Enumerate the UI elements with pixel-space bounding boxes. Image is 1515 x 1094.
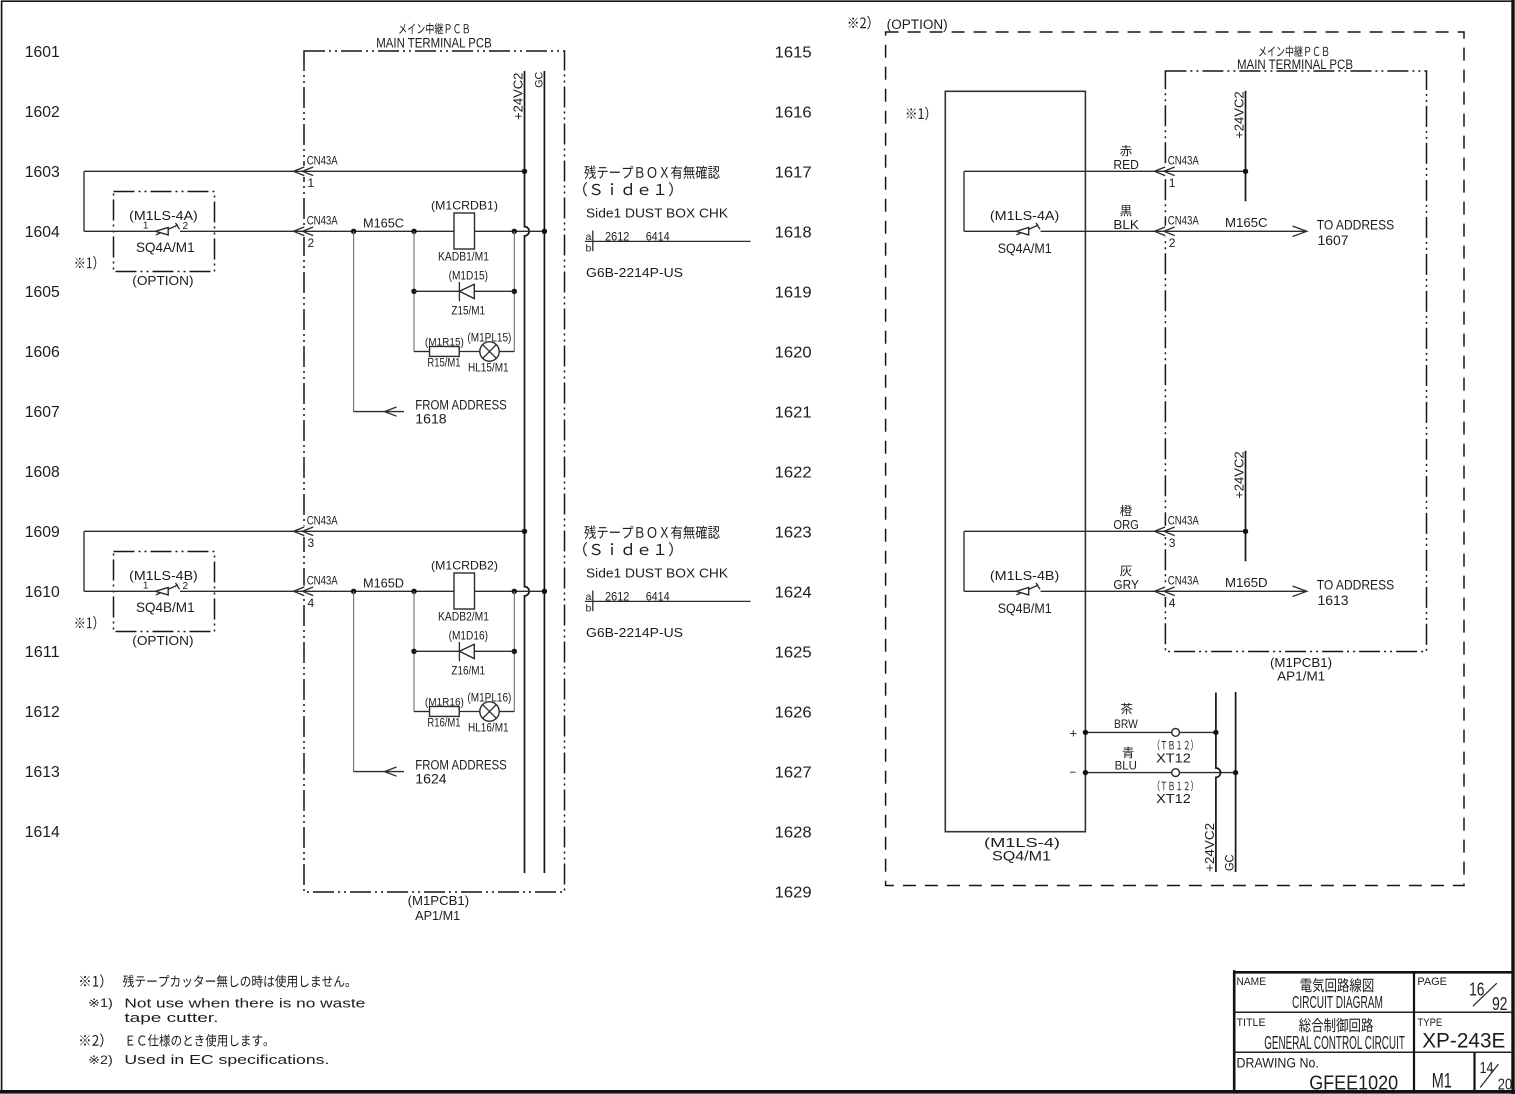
svg-text:4: 4 [308, 596, 315, 610]
svg-text:1: 1 [143, 221, 149, 232]
svg-text:1603: 1603 [25, 164, 60, 181]
svg-text:1607: 1607 [25, 404, 60, 421]
svg-text:(M1LS-4A): (M1LS-4A) [990, 208, 1059, 223]
connector CN43A pin 4 [294, 576, 338, 610]
connector CN43A pin 3 [294, 516, 338, 550]
svg-text:MAIN TERMINAL PCB: MAIN TERMINAL PCB [376, 35, 491, 50]
svg-text:1613: 1613 [1318, 592, 1349, 608]
diode Z16/M1 (M1D16) [411, 631, 517, 678]
svg-text:1: 1 [1169, 176, 1176, 190]
svg-text:SQ4B/M1: SQ4B/M1 [998, 601, 1052, 616]
svg-text:1: 1 [308, 176, 315, 190]
relay coil KADB1/M1 (M1CRDB1) [431, 198, 498, 263]
svg-text:2: 2 [183, 581, 189, 592]
svg-text:b: b [586, 603, 592, 615]
svg-text:3: 3 [308, 536, 315, 550]
svg-text:1611: 1611 [25, 644, 60, 661]
wire gaps at connector CN43A (left box edge) [302, 166, 309, 597]
title block TYPE cell [1417, 1017, 1505, 1052]
wire branch to FROM ADDRESS 1618 [354, 231, 507, 426]
svg-text:+24VC2: +24VC2 [511, 73, 526, 120]
svg-text:4: 4 [1169, 596, 1176, 610]
svg-text:HL15/M1: HL15/M1 [468, 363, 509, 375]
svg-text:CIRCUIT DIAGRAM: CIRCUIT DIAGRAM [1292, 992, 1383, 1012]
svg-text:XP-243E: XP-243E [1422, 1029, 1505, 1052]
svg-text:GRY: GRY [1113, 577, 1139, 592]
svg-text:(M1LS-4B): (M1LS-4B) [990, 568, 1059, 583]
svg-text:KADB1/M1: KADB1/M1 [438, 251, 489, 263]
svg-text:SQ4/M1: SQ4/M1 [992, 848, 1051, 863]
svg-text:TO ADDRESS: TO ADDRESS [1317, 217, 1395, 233]
title block DRAWING No. cell [1237, 1055, 1399, 1094]
svg-text:1623: 1623 [775, 524, 812, 541]
svg-text:(OPTION): (OPTION) [887, 17, 948, 32]
svg-text:(OPTION): (OPTION) [132, 273, 193, 288]
svg-text:+24VC2: +24VC2 [1232, 91, 1247, 138]
svg-text:(M1PCB1): (M1PCB1) [1270, 656, 1332, 670]
svg-text:2: 2 [308, 236, 315, 250]
svg-text:14: 14 [1480, 1060, 1494, 1077]
svg-text:1621: 1621 [775, 404, 812, 421]
connector CN43A pin 1 (right) [1154, 156, 1199, 190]
svg-text:1608: 1608 [25, 464, 60, 481]
svg-text:CN43A: CN43A [307, 516, 338, 528]
svg-text:(OPTION): (OPTION) [132, 633, 193, 648]
node line-numbers 1601-1614 (left column) [25, 44, 60, 841]
svg-text:G6B-2214P-US: G6B-2214P-US [586, 265, 683, 280]
svg-text:1625: 1625 [775, 644, 812, 661]
svg-text:CN43A: CN43A [1168, 576, 1199, 588]
svg-text:Used in EC specifications.: Used in EC specifications. [124, 1053, 329, 1067]
svg-text:1618: 1618 [415, 411, 446, 426]
svg-text:BLK: BLK [1113, 217, 1139, 232]
svg-text:1626: 1626 [775, 704, 812, 721]
limit switch SQ4B/M1 (M1LS-4B) right [990, 568, 1059, 616]
svg-text:ORG: ORG [1113, 517, 1139, 532]
svg-text:1614: 1614 [25, 824, 60, 841]
svg-text:GENERAL CONTROL CIRCUIT: GENERAL CONTROL CIRCUIT [1264, 1032, 1405, 1053]
node M165C [351, 215, 404, 234]
svg-text:XT12: XT12 [1156, 792, 1191, 806]
svg-text:1622: 1622 [775, 464, 812, 481]
svg-text:92: 92 [1492, 994, 1507, 1014]
svg-text:1615: 1615 [775, 44, 812, 61]
svg-text:M165D: M165D [1225, 575, 1268, 590]
svg-text:+: + [1070, 725, 1078, 740]
svg-text:1617: 1617 [775, 164, 812, 181]
svg-text:1604: 1604 [25, 224, 60, 241]
svg-text:(M1D15): (M1D15) [449, 271, 489, 283]
svg-text:M165C: M165C [363, 215, 404, 230]
svg-text:2: 2 [183, 221, 189, 232]
svg-text:1606: 1606 [25, 344, 60, 361]
svg-text:DRAWING No.: DRAWING No. [1237, 1055, 1319, 1070]
ground rail GC (bottom right) [1223, 692, 1237, 872]
terminal (TB12) XT12 lower [1156, 769, 1193, 807]
svg-text:1619: 1619 [775, 284, 812, 301]
svg-text:XT12: XT12 [1156, 752, 1191, 766]
svg-text:1612: 1612 [25, 704, 60, 721]
limit switch SQ4A/M1 (M1LS-4A) right [990, 208, 1059, 256]
svg-text:(M1PL16): (M1PL16) [467, 692, 511, 704]
svg-text:TO ADDRESS: TO ADDRESS [1317, 577, 1395, 593]
title block sheet 14/20 cell [1480, 1060, 1513, 1093]
svg-text:1629: 1629 [775, 884, 812, 901]
connector CN43A pin 2 (right) [1154, 216, 1199, 250]
svg-text:CN43A: CN43A [307, 576, 338, 588]
wire branch to FROM ADDRESS 1624 [354, 591, 507, 786]
note 1 (English) [88, 997, 365, 1025]
svg-text:(M1PCB1): (M1PCB1) [408, 894, 470, 908]
svg-text:CN43A: CN43A [1168, 216, 1199, 228]
wire GRY return row / net M165D [964, 566, 1307, 593]
svg-text:1624: 1624 [415, 771, 447, 786]
svg-text:AP1/M1: AP1/M1 [415, 909, 460, 923]
svg-text:Z16/M1: Z16/M1 [451, 665, 485, 677]
arrow to address 1607 / net M165C [1225, 215, 1394, 248]
connector CN43A pin 2 [294, 216, 338, 250]
OPTION enclosure (big dashed box) note 2 [849, 16, 1464, 886]
svg-text:3: 3 [1169, 536, 1176, 550]
svg-text:RED: RED [1113, 157, 1139, 172]
svg-text:1616: 1616 [775, 104, 812, 121]
title block NAME cell [1237, 976, 1384, 1012]
svg-text:TYPE: TYPE [1417, 1017, 1442, 1029]
power rail stub +24VC2 (right, row 3) [1232, 451, 1249, 562]
svg-text:M1: M1 [1432, 1070, 1452, 1093]
svg-text:NAME: NAME [1237, 976, 1267, 988]
svg-text:R15/M1: R15/M1 [427, 357, 460, 369]
svg-text:SQ4A/M1: SQ4A/M1 [136, 239, 195, 255]
limit switch assembly SQ4/M1 (M1LS-4) solid box [907, 91, 1086, 863]
svg-text:1: 1 [143, 581, 149, 592]
lamp HL15/M1 (M1PL15) [459, 332, 514, 374]
relay coil KADB2/M1 (M1CRDB2) [431, 558, 498, 623]
connector CN43A pin 4 (right) [1154, 576, 1199, 610]
note 2 (Japanese) [80, 1033, 267, 1047]
svg-text:1613: 1613 [25, 764, 60, 781]
svg-text:6414: 6414 [646, 590, 670, 604]
annotation DUST BOX CHK block [583, 165, 750, 280]
svg-text:MAIN TERMINAL PCB: MAIN TERMINAL PCB [1237, 57, 1353, 72]
connector CN43A pin 1 [294, 156, 338, 190]
svg-text:1605: 1605 [25, 284, 60, 301]
note 1 (Japanese) [80, 974, 349, 988]
svg-text:Not use when there is no waste: Not use when there is no waste [124, 997, 365, 1011]
power rail +24VC2 (left box) [511, 71, 530, 873]
wire RED feed row [964, 145, 1246, 231]
svg-text:1609: 1609 [25, 524, 60, 541]
svg-text:1628: 1628 [775, 824, 812, 841]
svg-text:(M1R15): (M1R15) [425, 336, 464, 348]
svg-text:FROM ADDRESS: FROM ADDRESS [415, 757, 507, 772]
PCB board outline AP1/M1 MAIN TERMINAL PCB (left dashed box) [304, 23, 565, 923]
svg-text:※2): ※2) [88, 1055, 113, 1067]
svg-text:+24VC2: +24VC2 [1232, 451, 1247, 498]
connector CN43A pin 3 (right) [1154, 516, 1199, 550]
svg-text:BRW: BRW [1114, 717, 1138, 731]
svg-text:(M1CRDB1): (M1CRDB1) [431, 198, 498, 212]
svg-text:1601: 1601 [25, 44, 60, 61]
svg-text:CN43A: CN43A [1168, 516, 1199, 528]
svg-text:CN43A: CN43A [307, 216, 338, 228]
svg-text:GC: GC [1223, 854, 1237, 871]
svg-text:+24VC2: +24VC2 [1202, 823, 1217, 872]
wire gaps at connector CN43A (right box edge) [1162, 166, 1169, 597]
svg-text:(M1PL15): (M1PL15) [467, 332, 511, 344]
title block TITLE cell [1237, 1017, 1405, 1053]
wire BLK return row / net M165C [964, 205, 1307, 232]
arrow to address 1613 / net M165D [1225, 575, 1394, 608]
wire parallel branch verticals [411, 589, 517, 712]
svg-text:AP1/M1: AP1/M1 [1277, 669, 1325, 683]
svg-text:1618: 1618 [775, 224, 812, 241]
svg-text:Side1 DUST BOX CHK: Side1 DUST BOX CHK [586, 207, 729, 221]
svg-text:CN43A: CN43A [307, 156, 338, 168]
svg-text:Side1 DUST BOX CHK: Side1 DUST BOX CHK [586, 567, 729, 581]
svg-text:FROM ADDRESS: FROM ADDRESS [415, 397, 507, 412]
svg-text:BLU: BLU [1115, 759, 1137, 773]
lamp HL16/M1 (M1PL16) [459, 692, 514, 734]
node M165D [351, 575, 404, 594]
title block sheet M1 cell [1432, 1070, 1452, 1093]
svg-text:1607: 1607 [1318, 232, 1349, 248]
node line-numbers 1615-1629 (middle column) [775, 44, 812, 901]
note 2 (English) [88, 1053, 329, 1067]
svg-text:2: 2 [1169, 236, 1176, 250]
diode Z15/M1 (M1D15) [411, 271, 517, 318]
svg-text:tape cutter.: tape cutter. [124, 1011, 218, 1025]
limit switch SQ4B/M1 (M1LS-4B) OPTION [75, 552, 214, 649]
svg-text:1610: 1610 [25, 584, 60, 601]
svg-text:(M1D16): (M1D16) [449, 631, 489, 643]
svg-text:b: b [586, 243, 592, 255]
resistor R16/M1 (M1R16) [414, 696, 464, 729]
wire net 1610 M165D [84, 589, 547, 594]
svg-text:2612: 2612 [605, 590, 630, 604]
svg-text:1620: 1620 [775, 344, 812, 361]
svg-text:1624: 1624 [775, 584, 812, 601]
svg-text:KADB2/M1: KADB2/M1 [438, 611, 489, 623]
svg-text:PAGE: PAGE [1417, 976, 1447, 988]
PCB board outline AP1/M1 MAIN TERMINAL PCB (right dashed box) [1165, 46, 1426, 684]
ground rail GC (left box) [533, 71, 545, 873]
svg-text:6414: 6414 [646, 230, 670, 244]
wire net 1609 (+24VC2 feed) [84, 529, 527, 592]
svg-text:G6B-2214P-US: G6B-2214P-US [586, 625, 683, 640]
svg-text:M165D: M165D [363, 575, 404, 590]
title block table [1233, 970, 1513, 1091]
svg-text:(M1R16): (M1R16) [425, 696, 464, 708]
resistor R15/M1 (M1R15) [414, 336, 464, 369]
wire BRW (+) to terminal XT12 [1070, 703, 1219, 741]
svg-text:※1): ※1) [88, 998, 113, 1010]
svg-text:SQ4B/M1: SQ4B/M1 [136, 599, 195, 615]
svg-text:2612: 2612 [605, 230, 630, 244]
svg-text:Z15/M1: Z15/M1 [451, 305, 485, 317]
limit switch SQ4A/M1 (M1LS-4A) OPTION [75, 192, 214, 289]
svg-text:R16/M1: R16/M1 [427, 717, 460, 729]
svg-text:M165C: M165C [1225, 215, 1268, 230]
wire parallel branch verticals [411, 229, 517, 352]
wire net 1603 (+24VC2 feed) [84, 169, 527, 232]
wire BLU (-) to terminal XT12 [1070, 747, 1238, 776]
svg-text:GC: GC [533, 72, 545, 88]
svg-text:1602: 1602 [25, 104, 60, 121]
terminal (TB12) XT12 upper [1156, 729, 1193, 766]
svg-text:HL16/M1: HL16/M1 [468, 723, 509, 735]
svg-text:(M1CRDB2): (M1CRDB2) [431, 558, 498, 572]
svg-text:20: 20 [1498, 1076, 1512, 1093]
wire ORG feed row [964, 505, 1246, 592]
svg-text:SQ4A/M1: SQ4A/M1 [998, 241, 1052, 256]
annotation DUST BOX CHK block [583, 525, 750, 640]
svg-text:CN43A: CN43A [1168, 156, 1199, 168]
svg-text:TITLE: TITLE [1237, 1017, 1266, 1029]
power rail +24VC2 (bottom right) [1202, 693, 1221, 873]
title block PAGE cell [1417, 976, 1507, 1014]
svg-text:1627: 1627 [775, 764, 812, 781]
svg-text:GFEE1020: GFEE1020 [1309, 1071, 1398, 1094]
power rail stub +24VC2 (right, row 1) [1232, 91, 1249, 202]
wire net 1604 M165C [84, 229, 547, 234]
